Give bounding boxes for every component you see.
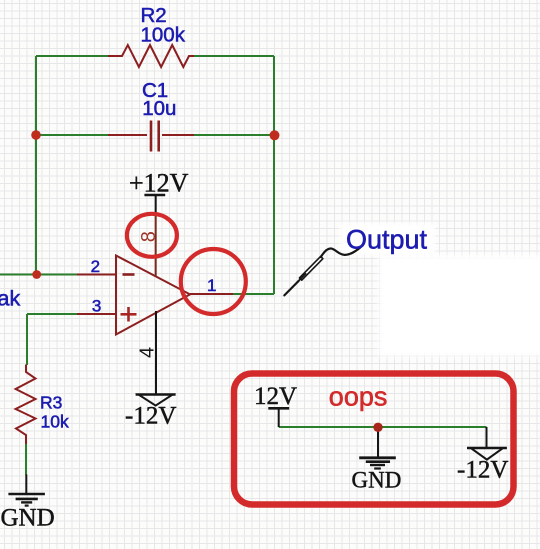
svg-text:oops: oops <box>329 382 388 412</box>
svg-text:1: 1 <box>207 276 216 295</box>
svg-text:R3: R3 <box>40 393 62 413</box>
svg-text:+12V: +12V <box>129 169 189 198</box>
svg-text:3: 3 <box>92 296 101 315</box>
svg-text:2: 2 <box>91 257 100 276</box>
svg-text:8: 8 <box>138 231 160 242</box>
svg-text:GND: GND <box>1 505 55 532</box>
svg-text:-12V: -12V <box>457 457 508 484</box>
svg-text:ak: ak <box>0 287 20 311</box>
svg-text:4: 4 <box>137 347 159 358</box>
svg-text:100k: 100k <box>141 23 186 46</box>
svg-text:12V: 12V <box>254 383 297 410</box>
svg-text:10k: 10k <box>41 412 69 432</box>
svg-text:GND: GND <box>352 468 402 493</box>
svg-text:-12V: -12V <box>125 403 176 430</box>
svg-text:Output: Output <box>346 225 428 255</box>
svg-text:10u: 10u <box>142 97 176 120</box>
